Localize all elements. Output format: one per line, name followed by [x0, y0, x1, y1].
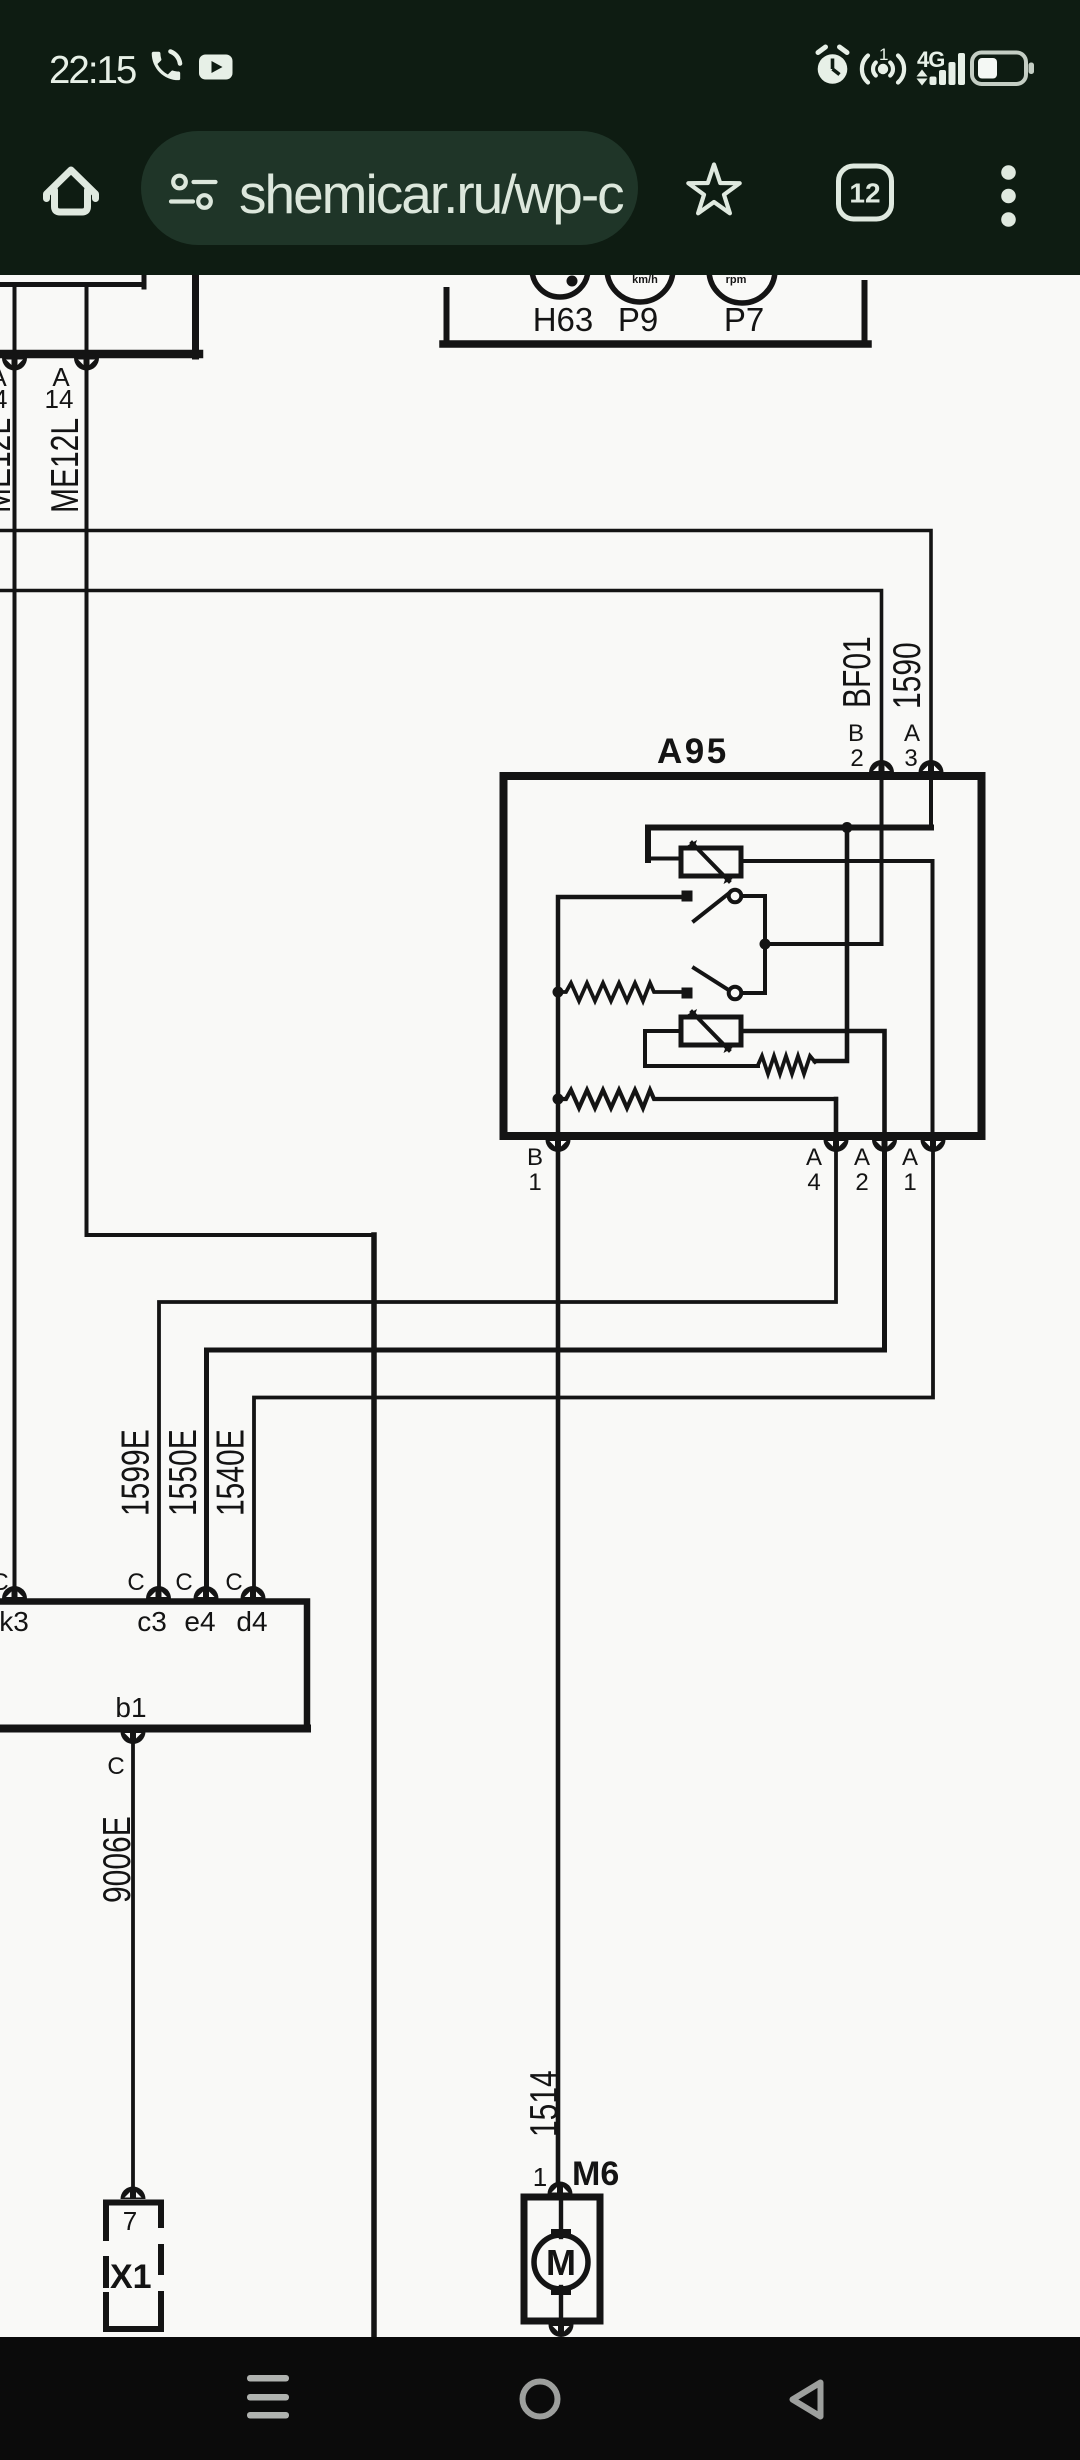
tab counter [839, 166, 892, 219]
svg-text:4: 4 [807, 1169, 820, 1196]
wire R2 to pin A4 [834, 1099, 839, 1139]
thermal fuse F1 (rect with arrow) [681, 840, 741, 884]
svg-text:B: B [848, 720, 864, 747]
svg-text:1: 1 [879, 45, 888, 64]
wire 1514 (pin B1 down to motor M6) [556, 1139, 561, 2190]
pin b1 [121, 1732, 146, 1745]
svg-text:7: 7 [123, 2206, 137, 2236]
pin e4 [194, 1586, 219, 1599]
svg-text:1: 1 [528, 1169, 541, 1196]
svg-text:1: 1 [533, 2162, 547, 2192]
gauge P7 (bottom arc) [709, 237, 775, 303]
svg-text:M: M [546, 2242, 576, 2283]
pin A1 (A95 bottom) [921, 1140, 946, 1153]
splice IX1 pin [121, 2187, 146, 2200]
pin c3 [146, 1586, 171, 1599]
svg-text:shemicar.ru/wp-c: shemicar.ru/wp-c [239, 163, 624, 225]
youtube icon [199, 55, 233, 80]
label pin B2 [848, 720, 864, 772]
svg-text:3: 3 [904, 745, 917, 772]
svg-text:9006E: 9006E [96, 1816, 139, 1903]
resistor R2 [558, 1090, 836, 1108]
connector box k3 (partial, left) [0, 1602, 307, 1729]
gauge P9 (bottom arc) [607, 236, 673, 302]
wire fuse2 right to pin A2 [741, 1031, 885, 1139]
svg-text:H63: H63 [533, 301, 594, 338]
pin d4 [241, 1586, 266, 1599]
svg-text:1: 1 [903, 1169, 916, 1196]
pin B2 (A95 top) [869, 760, 894, 773]
pin A4 (A95 bottom) [824, 1140, 849, 1153]
svg-text:b1: b1 [115, 1692, 146, 1723]
site settings (tune) icon [171, 176, 216, 208]
A95 unit box [504, 776, 982, 1136]
svg-text:22:15: 22:15 [49, 49, 136, 92]
wire ECU pin stub A14 [85, 287, 89, 354]
internal bus wire (top, thick) [648, 828, 931, 861]
svg-text:d4: d4 [236, 1606, 267, 1637]
wire R3 to top bus junction [815, 828, 847, 1061]
svg-text:P7: P7 [724, 301, 764, 338]
wire common to pin B2 [765, 772, 882, 944]
svg-text:ME12L: ME12L [44, 418, 87, 513]
ongoing call icon [152, 52, 180, 81]
bookmark star [688, 165, 739, 214]
wire fuse2 left to R3 [645, 1031, 758, 1066]
thermal fuse F2 (rect with arrow) [681, 1009, 741, 1053]
svg-text:k3: k3 [0, 1606, 29, 1637]
alarm clock icon [818, 47, 848, 84]
label A 14 [45, 362, 74, 414]
label pin B1 [527, 1144, 543, 1196]
svg-text:1590: 1590 [886, 642, 929, 709]
svg-text:C: C [225, 1569, 242, 1596]
junction switch common [760, 939, 771, 950]
wire fuse1 to pin A1 [741, 861, 933, 1139]
svg-text:e4: e4 [184, 1606, 215, 1637]
pin A2 (A95 bottom) [872, 1140, 897, 1153]
nav: home circle [523, 2382, 558, 2417]
pin A14 of ME12L [74, 358, 99, 371]
label A 14 (cut fragment at left edge) [0, 362, 7, 414]
svg-text:A: A [904, 720, 920, 747]
gauge H63 (bottom arc) [532, 241, 588, 297]
svg-text:2: 2 [850, 745, 863, 772]
wire bus to thermal fuse 1 [648, 857, 681, 861]
nav: back triangle [793, 2383, 821, 2417]
label pin A3 [904, 720, 920, 772]
svg-text:1550E: 1550E [162, 1429, 205, 1516]
junction B1/R2 [553, 1094, 564, 1105]
wire BF01 (to A95 pin B2) [0, 591, 882, 772]
svg-text:M6: M6 [572, 2155, 619, 2193]
svg-text:C: C [0, 1569, 9, 1596]
pin B1 (A95 bottom) [546, 1140, 571, 1153]
svg-text:A: A [902, 1144, 918, 1171]
overflow menu dots [1001, 165, 1016, 227]
svg-text:12: 12 [849, 178, 880, 209]
svg-text:C: C [107, 1753, 124, 1780]
pin k3 [2, 1586, 27, 1599]
svg-text:14: 14 [45, 384, 74, 414]
hotspot icon with 1 [862, 45, 904, 83]
battery icon (low) [972, 53, 1034, 85]
nav: recents (hamburger) [247, 2375, 289, 2419]
wire 1550E (pin A2 to connector e4, thick) [207, 1139, 885, 1598]
svg-text:rpm: rpm [726, 275, 747, 286]
pin A3 (A95 top) [919, 760, 944, 773]
svg-text:A: A [854, 1144, 870, 1171]
pin 1 of M6 [548, 2182, 573, 2195]
motor M6 symbol [534, 2200, 588, 2318]
motor M6 box [524, 2197, 600, 2321]
svg-text:2: 2 [855, 1169, 868, 1196]
wire 1599E (pin A4 to connector c3) [159, 1139, 836, 1598]
svg-text:1540E: 1540E [210, 1429, 253, 1516]
svg-text:4G: 4G [917, 47, 944, 72]
junction on top bus [842, 822, 853, 833]
home button [47, 170, 96, 212]
junction B1/R1 [553, 987, 564, 998]
pin (ECU left, cut label) [2, 358, 27, 371]
wire 9006E (b1 down to IX1) [131, 1731, 135, 2196]
splice IX1 dashed box [106, 2203, 161, 2330]
svg-text:1514: 1514 [523, 2070, 566, 2137]
4G + signal bars [917, 47, 966, 86]
resistor R1 [558, 983, 681, 1001]
svg-text:C: C [127, 1569, 144, 1596]
svg-text:A95: A95 [657, 732, 729, 771]
wire pin B1 up to switch 1 [558, 897, 683, 1139]
wire k3 (vertical from ECU to connector box) [13, 358, 17, 1598]
switch common vertical [763, 896, 767, 993]
label pin A1 [902, 1144, 918, 1196]
svg-text:C: C [175, 1569, 192, 1596]
svg-text:P9: P9 [618, 301, 658, 338]
svg-text:B: B [527, 1144, 543, 1171]
instrument cluster box (partial, top) [443, 283, 868, 344]
wire 1540E (pin A1 to connector d4) [254, 1139, 933, 1598]
ECU box ME12L (partial, top-left) [0, 275, 199, 356]
switch S1 (open contact) [682, 890, 766, 921]
svg-text:km/h: km/h [632, 275, 658, 286]
svg-text:A: A [806, 1144, 822, 1171]
resistor R3 [758, 1056, 815, 1074]
wire ECU pin stub left [13, 287, 17, 354]
label pin A2 [854, 1144, 870, 1196]
wire 1590 (to A95 pin A3) [0, 531, 931, 772]
switch S2 (open contact) [682, 968, 766, 999]
svg-text:BF01: BF01 [836, 636, 879, 708]
svg-text:c3: c3 [137, 1606, 167, 1637]
wire A14/ME12L run (down, right, thick down) [87, 358, 375, 2337]
pin 2 of M6 (bottom, cut) [549, 2325, 574, 2338]
omnibox pill [141, 131, 638, 245]
svg-text:14: 14 [0, 384, 7, 414]
svg-text:1599E: 1599E [115, 1429, 158, 1516]
svg-text:X1: X1 [110, 2258, 152, 2296]
label pin A4 [806, 1144, 822, 1196]
